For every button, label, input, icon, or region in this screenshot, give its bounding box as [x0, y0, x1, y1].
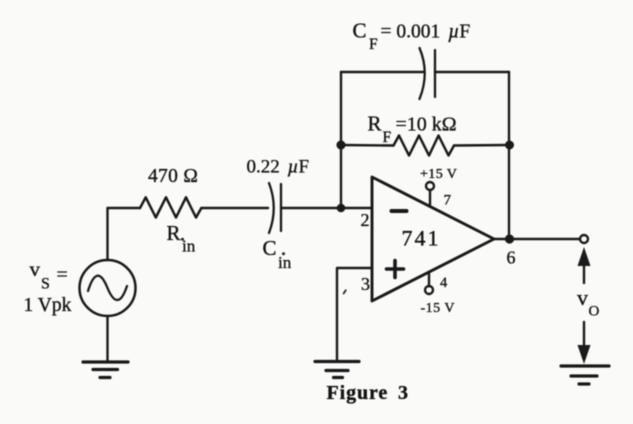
label RF = 10 kohm	[368, 112, 457, 147]
label 470 ohm	[148, 166, 198, 187]
vo arrow down to ground	[578, 322, 591, 364]
svg-text:=10 kΩ: =10 kΩ	[396, 114, 457, 136]
ground (output)	[561, 366, 609, 384]
pin 7 terminal +15V	[426, 182, 434, 207]
svg-text:741: 741	[402, 226, 441, 251]
pin 4 terminal -15V	[425, 272, 433, 294]
ground (pin 3)	[315, 362, 359, 378]
wire pin 3 to ground	[337, 268, 372, 361]
svg-text:=: =	[57, 264, 68, 286]
svg-text:O: O	[589, 304, 600, 320]
svg-text:in: in	[278, 253, 292, 272]
output open terminal	[580, 235, 588, 243]
svg-text:S: S	[41, 276, 50, 293]
svg-text:2: 2	[361, 210, 370, 230]
label vS = 1 Vpk	[24, 257, 72, 316]
wire feedback right vertical	[508, 72, 510, 239]
label vO	[577, 285, 600, 320]
junction dot RF right	[505, 141, 514, 150]
voltage source VS	[80, 260, 136, 316]
wire source bottom to ground	[106, 316, 108, 362]
node A junction dot	[337, 204, 346, 213]
svg-text:C: C	[353, 19, 367, 43]
label pin 6	[507, 248, 516, 268]
svg-text:1 Vpk: 1 Vpk	[24, 295, 72, 316]
scan dot after Rin label	[181, 238, 184, 241]
wire top feedback left	[341, 71, 423, 73]
wire output	[494, 238, 580, 240]
label pin 2	[361, 210, 370, 230]
ground (source)	[83, 362, 128, 378]
label Rin	[167, 221, 196, 256]
label pin 7	[444, 193, 452, 209]
svg-text:-15 V: -15 V	[421, 301, 456, 316]
label Cin	[263, 236, 292, 272]
resistor Rin	[140, 197, 201, 217]
svg-text:R: R	[167, 221, 181, 245]
label pin 3	[361, 274, 370, 294]
wire node A up to feedback	[340, 72, 342, 208]
capacitor Cin	[269, 183, 281, 233]
output junction dot pin 6	[505, 234, 514, 243]
wire top feedback right	[435, 71, 509, 73]
svg-text:R: R	[368, 112, 382, 136]
svg-text:0.22 µF: 0.22 µF	[247, 157, 310, 178]
op-amp minus sign	[392, 209, 407, 213]
wire Cin to node A	[281, 207, 372, 209]
label pin 4	[440, 275, 448, 291]
svg-text:in: in	[182, 237, 196, 256]
svg-text:C: C	[263, 236, 277, 260]
svg-text:F: F	[383, 129, 392, 146]
svg-text:+15 V: +15 V	[420, 167, 457, 182]
svg-text:= 0.001 µF: = 0.001 µF	[381, 22, 471, 43]
capacitor CF	[420, 48, 436, 99]
scan speck near pin 3	[344, 290, 346, 293]
svg-text:Figure: Figure	[327, 382, 389, 404]
scan dot after Cin label	[282, 252, 285, 255]
label 0.22 uF	[247, 157, 310, 178]
svg-text:6: 6	[507, 248, 516, 268]
node B junction dot (RF left)	[337, 141, 346, 150]
wire Rin to Cin	[201, 207, 268, 209]
svg-text:v: v	[577, 285, 588, 310]
svg-text:4: 4	[440, 275, 448, 291]
wire source top to main line	[108, 208, 141, 260]
svg-text:F: F	[369, 36, 378, 53]
label -15 V	[421, 301, 456, 316]
label 741	[402, 226, 441, 251]
label CF = 0.001 uF	[353, 19, 471, 54]
op-amp U1 741 triangle	[372, 177, 494, 301]
svg-text:v: v	[30, 257, 41, 281]
svg-text:3: 3	[398, 382, 408, 404]
op-amp plus sign	[387, 261, 404, 278]
label +15 V	[420, 167, 457, 182]
resistor RF	[341, 136, 509, 156]
figure caption	[327, 382, 409, 404]
junction dot RF left	[337, 141, 346, 150]
svg-text:7: 7	[444, 193, 452, 209]
svg-text:470 Ω: 470 Ω	[148, 166, 198, 187]
svg-text:3: 3	[361, 274, 370, 294]
vo arrow up	[578, 247, 591, 283]
